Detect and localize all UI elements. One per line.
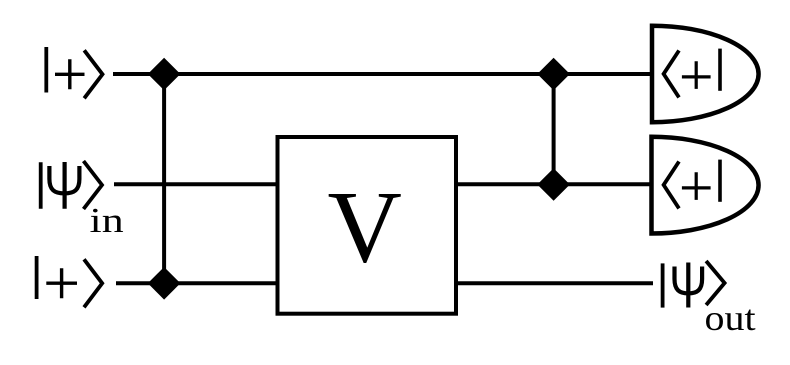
diamond node bottom-left (148, 267, 181, 300)
wire q2 right segment (454, 281, 653, 285)
wire q0 (top rail) (113, 72, 652, 76)
diamond node top-right (537, 58, 570, 91)
detector D2 bar (718, 160, 722, 202)
detector D1 plus (682, 61, 711, 89)
diamond node top-left (148, 58, 181, 91)
ket |+> bottom-left : rangle (84, 259, 102, 307)
detector D2 plus (682, 172, 711, 200)
ket |+> bottom-left : plus (46, 268, 77, 298)
detector D1 shape (652, 26, 759, 123)
ket |psi>_in : rangle (84, 161, 103, 209)
svg-text:V: V (328, 170, 402, 284)
ket |psi>_in : psi stem (62, 162, 66, 209)
svg-text:in: in (90, 201, 124, 240)
left vertical coupler wire (162, 74, 166, 283)
ket |psi>_in : bar (39, 162, 43, 209)
ket |psi>_out : psi bowl (675, 267, 703, 294)
right vertical coupler wire (552, 74, 556, 185)
gate V box (278, 137, 457, 314)
ket |+> top-left : rangle (84, 50, 102, 98)
detector D2 langle (664, 162, 679, 209)
wire q2 left segment (116, 281, 279, 285)
ket |+> top-left : plus (55, 59, 85, 89)
detector D1 langle (664, 51, 679, 98)
ket |psi>_in : psi bowl (49, 166, 79, 193)
detector D2 shape (652, 137, 759, 234)
wire q1 left segment (114, 182, 279, 186)
diamond node middle-right (537, 168, 570, 201)
ket |+> bottom-left : bar (35, 256, 39, 299)
ket |psi>_out : bar (661, 263, 665, 307)
detector D1 bar (718, 49, 722, 91)
ket |+> top-left : bar (44, 47, 48, 93)
ket |psi>_out : psi stem (686, 263, 690, 308)
svg-text:out: out (705, 299, 757, 339)
wire q1 right segment (454, 182, 652, 186)
ket |psi>_out : rangle (706, 261, 725, 305)
